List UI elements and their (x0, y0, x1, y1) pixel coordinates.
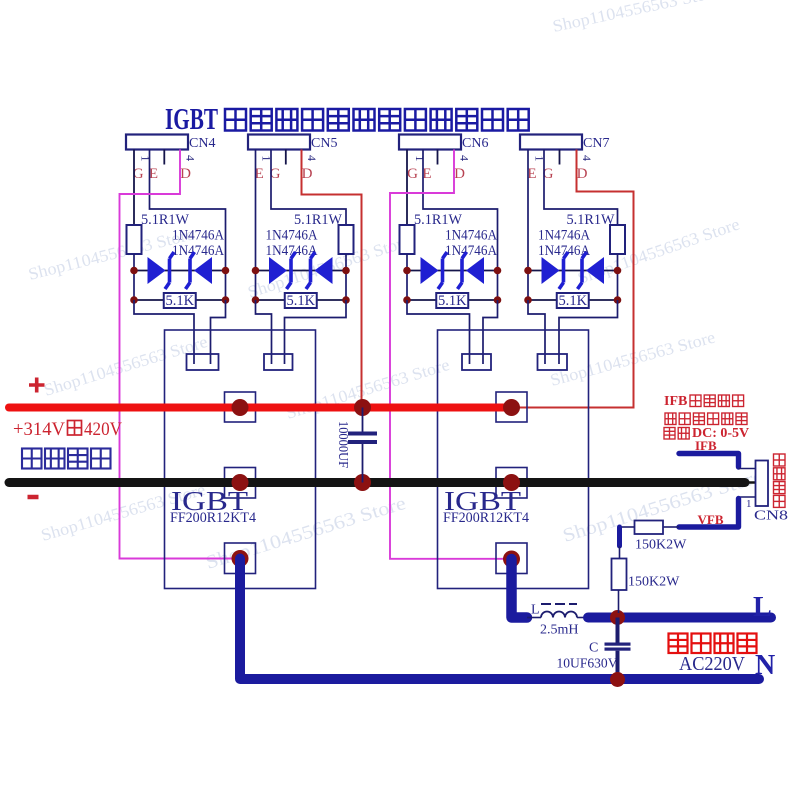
svg-text:1: 1 (746, 498, 752, 510)
zener diode D2a 1N4746A (269, 252, 296, 289)
wire resistor R1a to diode node (133, 254, 135, 271)
svg-text:+314V: +314V (13, 419, 65, 440)
wire CN4 pin E to right rail node (150, 150, 226, 226)
wire negative bus stub to CN8 pin (744, 481, 756, 484)
svg-text:CN8: CN8 (754, 509, 788, 524)
svg-text:D: D (577, 166, 588, 182)
resistor R2a 5.1R1W body (339, 225, 354, 254)
junction node left diode row group 4 (524, 267, 532, 275)
negative DC bus (9, 478, 745, 487)
resistor R4a 5.1R1W body (610, 225, 625, 254)
label line 2 connect hall sensor (Chinese) (665, 413, 676, 425)
junction dot right IGBT collector on positive bus (503, 399, 520, 416)
svg-text:D: D (302, 166, 313, 182)
wire L line junction down to capacitor C2 (616, 618, 620, 643)
capacitor C2 plates (605, 643, 631, 651)
svg-text:1N4746A: 1N4746A (445, 243, 497, 259)
wire group 4 right rail to terminal strip (559, 300, 618, 364)
minus symbol (28, 495, 39, 500)
thick wire inductor to L output terminal (588, 613, 771, 623)
svg-text:1N4746A: 1N4746A (445, 228, 497, 244)
svg-text:5.1R1W: 5.1R1W (141, 212, 189, 228)
label +314V to 420V (13, 419, 65, 440)
svg-text:1: 1 (413, 156, 427, 162)
wire zener diode row group 4 (528, 270, 618, 272)
svg-text:5.1K: 5.1K (438, 293, 467, 309)
wire VFB thin lead into CN8 pin (739, 496, 756, 498)
svg-text:150K2W: 150K2W (628, 575, 680, 590)
svg-text:CN7: CN7 (583, 136, 609, 151)
wire left rail group 1 (133, 271, 135, 301)
resistor R6 150K2W body (vertical) (612, 559, 627, 591)
junction dot AC L line (610, 610, 625, 625)
junction dot left IGBT gate terminal (232, 550, 249, 567)
wire left rail group 3 (406, 271, 408, 301)
svg-text:10UF630V: 10UF630V (557, 657, 618, 672)
svg-text:CN5: CN5 (311, 136, 337, 151)
IGBT module U1 gate terminal box (225, 543, 256, 574)
wire capacitor C2 down to N line (616, 651, 620, 679)
svg-text:150K2W: 150K2W (635, 538, 687, 553)
wire inductor left lead (527, 617, 541, 619)
resistor R2b 5.1K body (285, 293, 317, 308)
junction node right resistor row group 3 (494, 296, 502, 304)
connector CN4 body (126, 135, 188, 150)
plus symbol (29, 378, 45, 393)
svg-text:1N4746A: 1N4746A (172, 228, 224, 244)
zener diode D3b 1N4746A (458, 252, 485, 289)
wire right rail group 2 (345, 271, 347, 301)
AC output label (Chinese) (669, 634, 688, 654)
junction node left diode row group 2 (252, 267, 260, 275)
wire CN5 pin G over to resistor R2a (271, 150, 346, 226)
svg-text:5.1R1W: 5.1R1W (414, 212, 462, 228)
svg-text:G: G (407, 166, 418, 182)
resistor R3b 5.1K body (436, 293, 468, 308)
wire resistor R5 to divider node (620, 526, 635, 528)
svg-text:1N4746A: 1N4746A (172, 243, 224, 259)
wire resistor row group 3 (407, 299, 498, 301)
junction dot capacitor node on positive bus (354, 399, 371, 416)
wire IFB thin lead into CN8 pin (739, 468, 756, 470)
IGBT module U1 collector terminal box (225, 392, 256, 422)
zener diode D3a 1N4746A (421, 252, 448, 289)
wire CN4 pin D gate drive (magenta) to left IGBT gate terminal (120, 150, 237, 559)
terminal strip box group 2 (264, 354, 293, 370)
IGBT module U2 collector terminal box (496, 392, 527, 422)
svg-text:L: L (753, 592, 772, 623)
thick wire IFB to CN8 (679, 454, 739, 468)
wire left rail group 4 (527, 271, 529, 301)
wire CN4 pin G to resistor R1a (133, 150, 135, 226)
junction node right resistor row group 2 (342, 296, 350, 304)
wire resistor R4a to diode node (617, 254, 619, 271)
label to control board (Chinese, vertical) (774, 454, 786, 466)
IGBT module U1 outline (165, 330, 316, 589)
capacitor C1 10000UF plates (348, 432, 377, 445)
wire capacitor C1 to negative bus (362, 444, 364, 483)
wire VFB to resistor R5 (663, 526, 679, 528)
svg-text:5.1K: 5.1K (558, 293, 587, 309)
svg-text:4: 4 (458, 155, 472, 161)
zener diode D4a 1N4746A (542, 252, 569, 289)
svg-text:1: 1 (139, 156, 153, 162)
zener diode D1b 1N4746A (186, 252, 213, 289)
junction node left diode row group 3 (403, 267, 411, 275)
thick wire left IGBT gate terminal down and right to N output (240, 559, 759, 680)
wire group 2 right rail to terminal strip (285, 300, 347, 364)
junction dot right IGBT emitter on negative bus (503, 474, 520, 491)
wire group 3 left rail to terminal strip (407, 300, 470, 364)
wire CN5 pin D (red) to positive bus capacitor node (302, 150, 362, 405)
svg-text:5.1K: 5.1K (165, 293, 194, 309)
connector CN5 body (248, 135, 310, 150)
svg-text:IFB: IFB (664, 394, 687, 409)
connector CN8 body (756, 461, 769, 507)
junction node left resistor row group 2 (252, 296, 260, 304)
junction dot left IGBT emitter on negative bus (232, 474, 249, 491)
wire right rail group 3 (497, 271, 499, 301)
wire group 2 left rail to terminal strip (256, 300, 272, 364)
junction node right diode row group 3 (494, 267, 502, 275)
wire CN7 pin D (red) to right IGBT collector node (516, 150, 634, 408)
svg-text:IFB: IFB (695, 438, 717, 453)
wire divider node to resistor R6 (619, 546, 621, 559)
svg-text:1N4746A: 1N4746A (266, 228, 318, 244)
junction dot capacitor node on negative bus (354, 474, 371, 491)
connector CN6 pin 3 stub (437, 150, 439, 165)
svg-text:4: 4 (184, 155, 198, 161)
wire zener diode row group 2 (256, 270, 347, 272)
inductor L1 2.5mH coil (541, 612, 577, 618)
junction node left diode row group 1 (130, 267, 138, 275)
IGBT module U2 outline (438, 330, 589, 589)
wire zener diode row group 1 (134, 270, 226, 272)
wire CN6 pin E to right rail node (423, 150, 498, 226)
wire CN6 pin G to resistor R3a (406, 150, 408, 226)
wire CN7 pin E straight down to left node (527, 150, 529, 271)
svg-text:4: 4 (580, 155, 594, 161)
wire CN6 pin D gate drive (magenta) to right IGBT gate terminal (390, 150, 508, 559)
svg-text:D: D (180, 166, 191, 182)
wire group 1 left rail to terminal strip (134, 300, 194, 364)
junction node right diode row group 4 (614, 267, 622, 275)
svg-text:5.1K: 5.1K (286, 293, 315, 309)
wire resistor R6 down to AC L line junction (618, 590, 620, 613)
connector CN7 pin 3 stub (559, 150, 561, 165)
wire right rail upper segment (497, 225, 499, 271)
svg-text:5.1R1W: 5.1R1W (294, 212, 342, 228)
wire group 3 right rail to terminal strip (483, 300, 498, 364)
resistor R3a 5.1R1W body (400, 225, 415, 254)
resistor R1b 5.1K body (164, 293, 196, 308)
resistor R4b 5.1K body (557, 293, 589, 308)
zener diode D1a 1N4746A (148, 252, 175, 289)
zener diode D2b 1N4746A (306, 252, 333, 289)
svg-text:10000UF: 10000UF (335, 421, 350, 468)
svg-text:420V: 420V (84, 419, 122, 440)
wire group 1 right rail to terminal strip (211, 300, 226, 364)
junction node right resistor row group 1 (222, 296, 230, 304)
junction dot AC N line at capacitor (610, 672, 625, 687)
resistor R1a 5.1R1W body (127, 225, 142, 254)
junction dot left IGBT collector on positive bus (232, 399, 249, 416)
IGBT module U2 emitter terminal box (496, 468, 527, 499)
label line 3 output DC 0-5V (664, 428, 675, 440)
terminal strip box group 3 (462, 354, 491, 370)
thick wire VFB to CN8 (679, 499, 739, 528)
junction node left resistor row group 4 (524, 296, 532, 304)
connector CN6 body (399, 135, 461, 150)
positive DC bus +314V (9, 404, 512, 412)
svg-text:L: L (531, 603, 540, 618)
svg-text:4: 4 (305, 155, 319, 161)
junction node right resistor row group 4 (614, 296, 622, 304)
wire resistor R2a to diode node (345, 254, 347, 271)
label IFB current feedback line 1 (Chinese) (664, 394, 687, 409)
svg-text:AC220V: AC220V (679, 653, 746, 675)
wire resistor row group 2 (256, 299, 347, 301)
junction node left resistor row group 3 (403, 296, 411, 304)
svg-text:C: C (589, 641, 598, 656)
junction dot right IGBT gate terminal (503, 551, 520, 568)
svg-text:FF200R12KT4: FF200R12KT4 (443, 510, 530, 526)
wire positive bus to capacitor C1 (362, 408, 364, 432)
junction node right diode row group 2 (342, 267, 350, 275)
junction node right diode row group 1 (222, 267, 230, 275)
svg-text:1N4746A: 1N4746A (538, 228, 590, 244)
wire left rail group 2 (255, 271, 257, 301)
wire group 4 left rail to terminal strip (528, 300, 545, 364)
junction node left resistor row group 1 (130, 296, 138, 304)
IGBT module U1 emitter terminal box (225, 468, 256, 499)
connector CN7 body (520, 135, 582, 150)
wire CN5 pin E straight down to left node (255, 150, 257, 271)
wire resistor row group 1 (134, 299, 226, 301)
IGBT module U2 gate terminal box (496, 543, 527, 574)
wire CN7 pin G over to resistor R4a (544, 150, 618, 226)
wire right rail group 4 (617, 271, 619, 301)
svg-text:CN4: CN4 (189, 136, 215, 151)
zener diode D4b 1N4746A (578, 252, 605, 289)
svg-text:D: D (454, 166, 465, 182)
svg-text:CN6: CN6 (462, 136, 488, 151)
svg-text:N: N (755, 650, 775, 681)
wire resistor R3a to diode node (406, 254, 408, 271)
svg-text:FF200R12KT4: FF200R12KT4 (170, 510, 257, 526)
label DC input (Chinese) (22, 449, 42, 469)
wire zener diode row group 3 (407, 270, 498, 272)
thick wire right IGBT emitter-out down to inductor (512, 559, 528, 618)
title text IGBT module drive sine wave output wiring diagram (165, 101, 218, 136)
wire resistor row group 4 (528, 299, 618, 301)
wire right rail upper segment (225, 225, 227, 271)
svg-text:IGBT: IGBT (165, 101, 218, 136)
wire right rail group 1 (225, 271, 227, 301)
terminal strip box group 1 (187, 354, 219, 370)
thick stub divider node (617, 527, 622, 546)
connector CN5 pin 3 stub (285, 150, 287, 165)
inductor L1 core dashes (541, 603, 577, 605)
connector CN4 pin 3 stub (163, 150, 165, 165)
svg-text:VFB: VFB (698, 512, 724, 527)
wire inductor right lead (577, 617, 588, 619)
svg-text:2.5mH: 2.5mH (540, 623, 579, 638)
resistor R5 150K2W body (horizontal) (635, 521, 664, 535)
svg-text:5.1R1W: 5.1R1W (567, 212, 615, 228)
terminal strip box group 4 (538, 354, 568, 370)
